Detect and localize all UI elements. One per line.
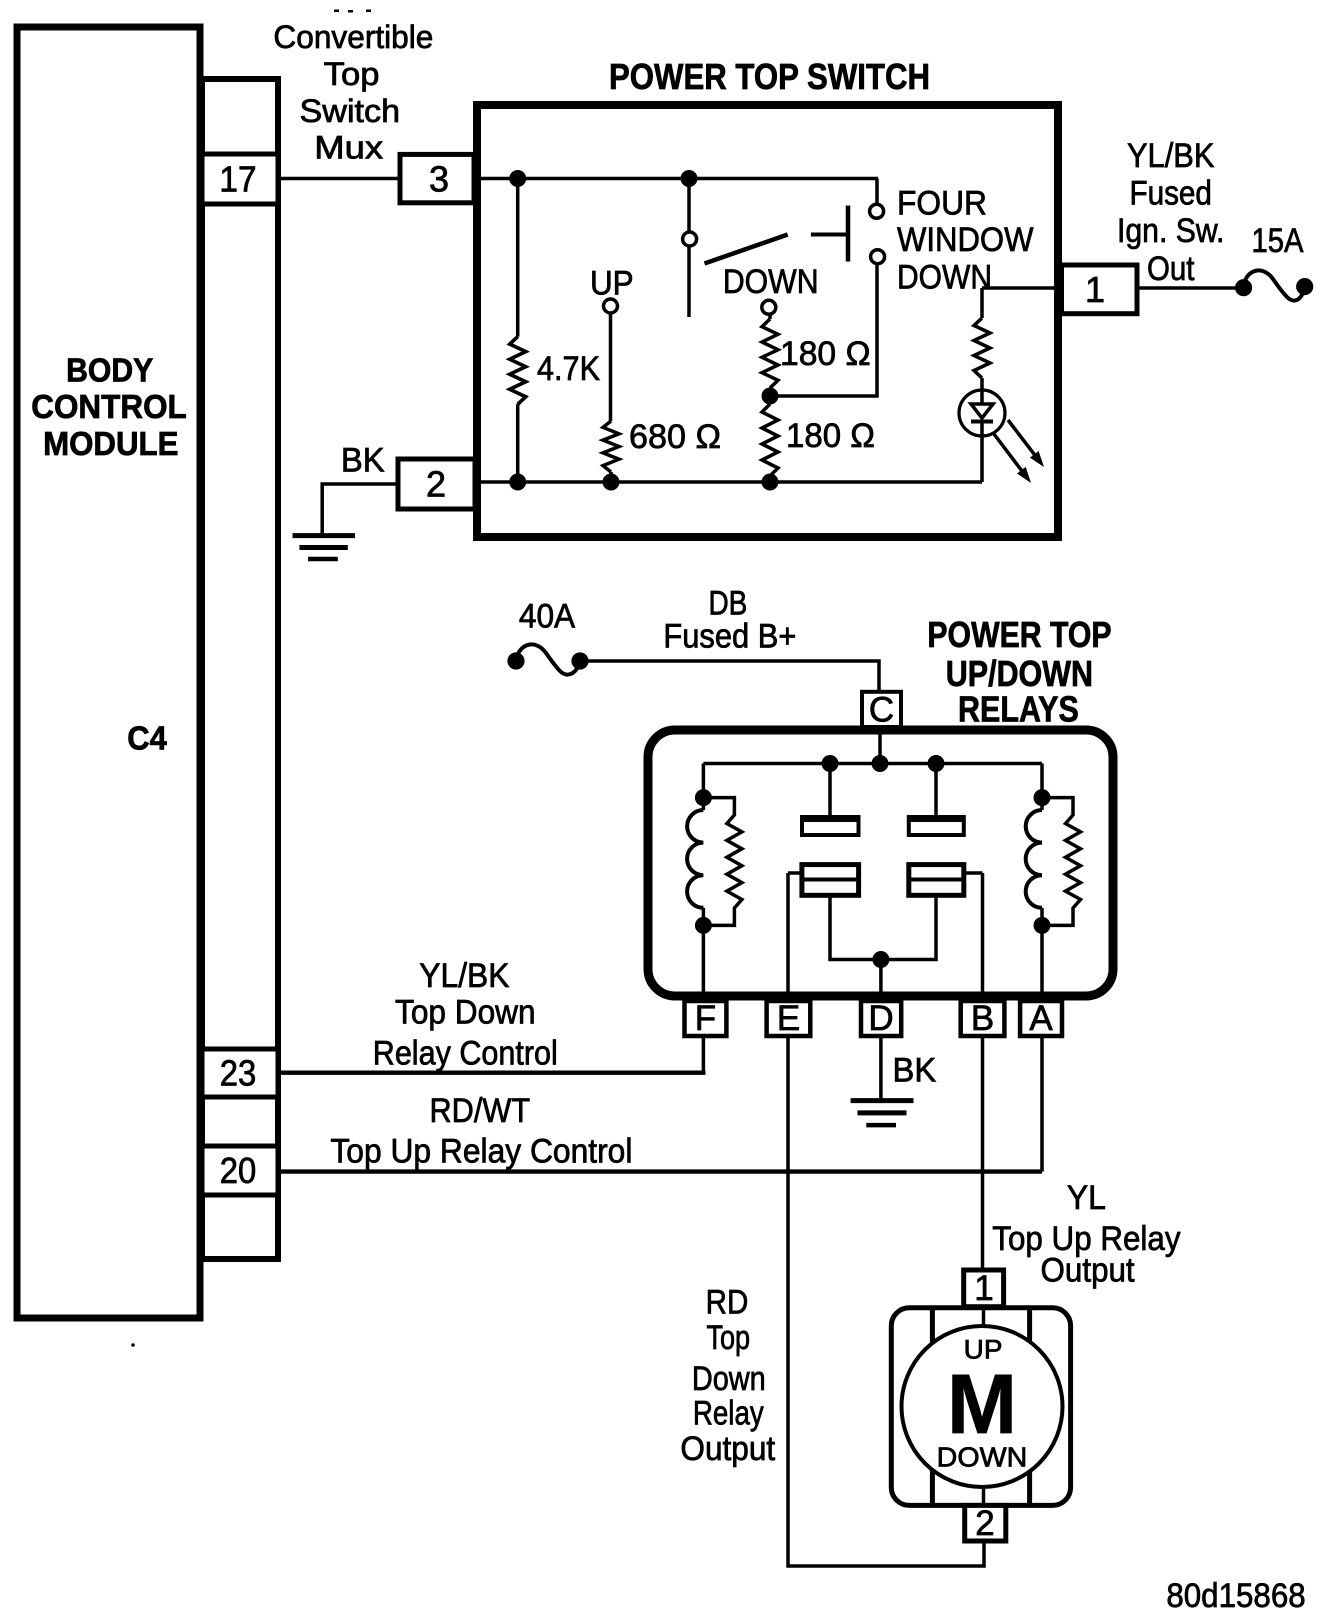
- svg-text:RD/WT: RD/WT: [430, 1092, 531, 1130]
- svg-text:Top Down: Top Down: [395, 994, 536, 1032]
- svg-text:Down: Down: [692, 1360, 766, 1398]
- svg-text:E: E: [777, 999, 800, 1038]
- svg-text:YL: YL: [1067, 1179, 1106, 1217]
- svg-text:UP: UP: [590, 265, 634, 303]
- svg-text:40A: 40A: [519, 598, 576, 636]
- svg-text:CONTROL: CONTROL: [31, 388, 187, 425]
- svg-text:Output: Output: [1041, 1252, 1136, 1290]
- svg-text:180 Ω: 180 Ω: [780, 335, 871, 373]
- svg-text:Top: Top: [706, 1319, 750, 1357]
- svg-text:RD: RD: [706, 1284, 749, 1322]
- svg-text:POWER TOP: POWER TOP: [927, 614, 1111, 655]
- svg-text:Top Up Relay Control: Top Up Relay Control: [330, 1133, 632, 1171]
- svg-text:C4: C4: [127, 720, 167, 757]
- svg-text:180 Ω: 180 Ω: [786, 417, 875, 455]
- svg-text:BODY: BODY: [66, 352, 153, 389]
- svg-text:D: D: [868, 999, 893, 1038]
- svg-text:3: 3: [429, 159, 449, 200]
- svg-text:MODULE: MODULE: [43, 425, 178, 462]
- svg-text:B: B: [971, 999, 994, 1038]
- svg-text:POWER TOP SWITCH: POWER TOP SWITCH: [609, 56, 930, 97]
- svg-text:F: F: [695, 999, 716, 1038]
- svg-text:DOWN: DOWN: [937, 1442, 1028, 1473]
- svg-text:Output: Output: [680, 1430, 775, 1468]
- svg-text:1: 1: [974, 1269, 993, 1308]
- svg-text:680 Ω: 680 Ω: [629, 418, 721, 456]
- svg-text:RELAYS: RELAYS: [958, 689, 1079, 730]
- svg-text:YL/BK: YL/BK: [419, 957, 509, 995]
- svg-text:YL/BK: YL/BK: [1127, 137, 1215, 175]
- svg-text:Relay Control: Relay Control: [373, 1034, 558, 1072]
- svg-text:15A: 15A: [1252, 222, 1304, 260]
- svg-text:80d15868: 80d15868: [1166, 1577, 1305, 1615]
- svg-text:Ign. Sw.: Ign. Sw.: [1117, 212, 1225, 250]
- svg-text:DOWN: DOWN: [897, 259, 992, 297]
- svg-text:Switch: Switch: [300, 93, 401, 129]
- svg-text:2: 2: [975, 1504, 994, 1543]
- svg-text:17: 17: [219, 159, 256, 200]
- svg-text:DOWN: DOWN: [723, 263, 819, 301]
- svg-text:Convertible: Convertible: [273, 19, 433, 55]
- svg-text:Fused: Fused: [1129, 175, 1212, 213]
- svg-text:20: 20: [220, 1150, 257, 1191]
- svg-text:23: 23: [220, 1053, 257, 1094]
- svg-text:Relay: Relay: [693, 1395, 764, 1433]
- svg-text:M: M: [947, 1357, 1017, 1451]
- svg-text:FOUR: FOUR: [897, 185, 987, 223]
- svg-text:1: 1: [1085, 269, 1105, 310]
- svg-text:4.7K: 4.7K: [537, 350, 600, 388]
- svg-text:C: C: [869, 691, 894, 730]
- svg-text:Top: Top: [324, 56, 380, 92]
- svg-text:WINDOW: WINDOW: [897, 221, 1034, 259]
- svg-text:BK: BK: [893, 1051, 937, 1089]
- svg-text:BK: BK: [341, 442, 385, 480]
- svg-text:A: A: [1029, 999, 1053, 1038]
- svg-text:2: 2: [426, 464, 446, 505]
- svg-text:Out: Out: [1147, 250, 1195, 288]
- svg-text:Fused B+: Fused B+: [663, 618, 796, 656]
- svg-text:Mux: Mux: [314, 130, 383, 166]
